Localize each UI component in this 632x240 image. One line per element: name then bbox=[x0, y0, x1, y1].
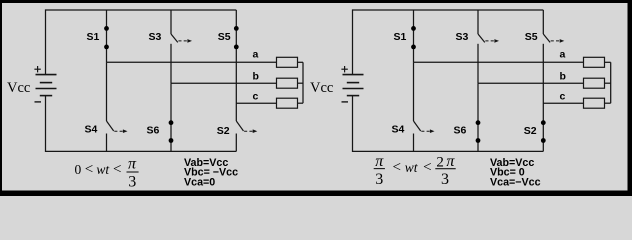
wire neutral bus left bbox=[302, 62, 304, 103]
svg-text:3: 3 bbox=[375, 171, 383, 188]
wire bottom bus left bbox=[46, 150, 237, 152]
svg-text:<: < bbox=[423, 159, 431, 175]
load phase a left bbox=[277, 57, 298, 67]
svg-text:Vcc: Vcc bbox=[310, 80, 333, 96]
wire left source + side right bbox=[352, 9, 354, 74]
svg-text:S5: S5 bbox=[218, 31, 231, 43]
label S1 left bbox=[87, 31, 100, 43]
svg-text:S2: S2 bbox=[217, 125, 230, 137]
wire load a to bus right bbox=[605, 61, 611, 63]
wire leg c upper right bbox=[542, 10, 544, 34]
wire leg c mid right bbox=[542, 44, 544, 121]
switch S6 closed left bbox=[169, 83, 174, 151]
switch S6 closed right bbox=[476, 83, 481, 151]
wire neutral bus right bbox=[610, 62, 612, 103]
wire leg c bottom left bbox=[235, 134, 237, 152]
svg-text:S2: S2 bbox=[524, 125, 537, 137]
svg-text:c: c bbox=[253, 90, 259, 102]
switch S2 closed right bbox=[541, 120, 546, 151]
battery Vcc right bbox=[341, 66, 363, 102]
battery Vcc left bbox=[34, 66, 56, 102]
label S6 left bbox=[147, 125, 160, 137]
label S5 left bbox=[218, 31, 231, 43]
svg-text:S3: S3 bbox=[456, 31, 469, 43]
label S4 right bbox=[392, 124, 405, 136]
wire phase c left bbox=[236, 102, 276, 104]
switch S3 open right bbox=[478, 34, 499, 43]
label Vcc right bbox=[310, 80, 333, 96]
load phase c left bbox=[277, 98, 298, 108]
svg-text:0: 0 bbox=[75, 162, 82, 177]
wire left source + side left bbox=[45, 9, 47, 74]
wire phase b left bbox=[171, 82, 277, 84]
svg-text:S5: S5 bbox=[525, 31, 538, 43]
svg-text:S4: S4 bbox=[392, 124, 405, 136]
switch S4 open left bbox=[107, 121, 128, 133]
svg-text:π: π bbox=[128, 156, 137, 173]
svg-text:a: a bbox=[253, 49, 259, 61]
load phase c right bbox=[584, 98, 605, 108]
svg-text:3: 3 bbox=[441, 171, 449, 188]
svg-text:S3: S3 bbox=[149, 31, 162, 43]
frame border bottom bbox=[0, 191, 632, 197]
wire leg a lower right bbox=[413, 62, 415, 121]
switch S5 open right bbox=[543, 34, 564, 43]
label S6 right bbox=[454, 125, 467, 137]
wire phase a left bbox=[107, 61, 277, 63]
node a left bbox=[253, 49, 259, 61]
switch S4 open right bbox=[414, 121, 435, 133]
switch S5 closed left bbox=[234, 10, 239, 121]
frame border left bbox=[0, 0, 2, 196]
svg-text:a: a bbox=[560, 49, 566, 61]
svg-text:b: b bbox=[560, 70, 566, 82]
switch S1 closed right bbox=[411, 10, 416, 62]
wire load c to bus left bbox=[298, 102, 304, 104]
label equations left Vab=Vcc Vbc=-Vcc Vca=0 bbox=[184, 157, 238, 189]
svg-text:S6: S6 bbox=[454, 125, 467, 137]
label S5 right bbox=[525, 31, 538, 43]
load phase a right bbox=[584, 57, 605, 67]
svg-text:wt: wt bbox=[405, 160, 419, 175]
switch S3 open left bbox=[171, 34, 192, 43]
node b right bbox=[560, 70, 566, 82]
switch S2 open left bbox=[236, 121, 257, 133]
svg-text:S1: S1 bbox=[87, 31, 100, 43]
switch S1 closed left bbox=[104, 10, 109, 62]
svg-text:3: 3 bbox=[128, 173, 136, 190]
wire load b to bus left bbox=[298, 82, 304, 84]
svg-text:S1: S1 bbox=[394, 31, 407, 43]
svg-text:S6: S6 bbox=[147, 125, 160, 137]
wire phase b right bbox=[478, 82, 584, 84]
node c left bbox=[253, 90, 259, 102]
svg-text:π: π bbox=[375, 153, 384, 170]
svg-text:wt: wt bbox=[96, 162, 110, 177]
label interval 0 < wt < pi/3 bbox=[75, 156, 139, 191]
load phase b left bbox=[277, 78, 298, 88]
label S3 left bbox=[149, 31, 162, 43]
svg-text:S4: S4 bbox=[85, 124, 98, 136]
svg-text:π: π bbox=[446, 153, 455, 170]
label interval pi/3 < wt < 2pi/3 bbox=[374, 153, 456, 188]
wire bottom bus right bbox=[353, 150, 544, 152]
svg-text:Vcc: Vcc bbox=[7, 80, 30, 96]
node a right bbox=[560, 49, 566, 61]
wire leg a bottom right bbox=[413, 134, 415, 152]
wire top bus left bbox=[46, 9, 237, 11]
wire leg a bottom left bbox=[106, 134, 108, 152]
wire leg b mid left bbox=[170, 44, 172, 83]
svg-text:<: < bbox=[85, 161, 93, 177]
label S4 left bbox=[85, 124, 98, 136]
label S2 right bbox=[524, 125, 537, 137]
label Vcc left bbox=[7, 80, 30, 96]
svg-text:<: < bbox=[393, 159, 401, 175]
wire phase a right bbox=[414, 61, 584, 63]
svg-text:Vca=0: Vca=0 bbox=[184, 176, 215, 188]
wire leg a lower left bbox=[106, 62, 108, 121]
wire load b to bus right bbox=[605, 82, 611, 84]
wire leg b upper right bbox=[477, 10, 479, 34]
svg-text:2: 2 bbox=[436, 155, 444, 171]
svg-text:<: < bbox=[113, 161, 121, 177]
label S2 left bbox=[217, 125, 230, 137]
wire leg b mid right bbox=[477, 44, 479, 83]
svg-text:b: b bbox=[253, 70, 259, 82]
wire left source - side left bbox=[45, 96, 47, 152]
node c right bbox=[560, 90, 566, 102]
frame border right bbox=[628, 0, 632, 196]
wire load c to bus right bbox=[605, 102, 611, 104]
wire load a to bus left bbox=[298, 61, 304, 63]
svg-text:Vca=−Vcc: Vca=−Vcc bbox=[490, 176, 541, 188]
wire leg b upper left bbox=[170, 10, 172, 34]
wire phase c right bbox=[543, 102, 583, 104]
node b left bbox=[253, 70, 259, 82]
label S1 right bbox=[394, 31, 407, 43]
wire top bus right bbox=[353, 9, 544, 11]
wire left source - side right bbox=[352, 96, 354, 152]
load phase b right bbox=[584, 78, 605, 88]
frame border top bbox=[0, 0, 632, 3]
label equations right Vab=Vcc Vbc=0 Vca=-Vcc bbox=[490, 157, 541, 189]
svg-text:c: c bbox=[560, 90, 566, 102]
label S3 right bbox=[456, 31, 469, 43]
